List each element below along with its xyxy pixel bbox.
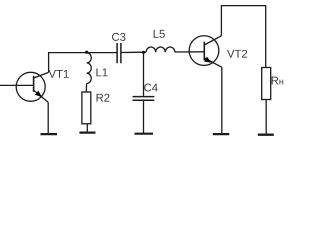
ground under C4 <box>135 133 154 135</box>
transistor VT2 emitter arrow <box>204 57 212 63</box>
label Rn <box>272 77 284 85</box>
capacitor C3 left plate <box>116 43 118 63</box>
wire VT2 emitter riser <box>221 67 223 133</box>
wire C3 to L5 with C4 tap <box>121 51 146 53</box>
wire L1 to R2 <box>85 83 87 92</box>
wire VT2 collector riser and top wire to Rn <box>221 6 265 68</box>
label C3 <box>112 33 125 41</box>
transistor VT2 collector diagonal <box>204 36 221 45</box>
label L5 <box>154 30 165 38</box>
ground under R2 <box>79 132 95 134</box>
wire base of VT1 from left edge <box>0 84 34 86</box>
capacitor C4 top plate <box>133 96 155 98</box>
resistor Rn body <box>262 68 271 100</box>
label VT1 <box>49 70 69 78</box>
transistor VT1 collector diagonal <box>34 72 49 78</box>
label VT2 <box>227 50 247 58</box>
node junction dot C4 tap <box>142 51 145 54</box>
transistor VT2 base bar <box>203 42 205 61</box>
wire VT1 emitter riser <box>47 102 49 133</box>
transistor VT1 emitter arrow <box>35 91 42 98</box>
transistor Q1 VT1 circle <box>16 72 45 101</box>
capacitor C3 right plate <box>120 43 122 63</box>
wire Rn to ground <box>265 100 267 135</box>
capacitor C4 bottom plate <box>133 99 155 101</box>
transistor VT1 emitter diagonal <box>34 90 49 102</box>
wire C4 upper lead <box>143 52 145 96</box>
node junction dot at L1 top <box>85 51 88 54</box>
transistor Q2 VT2 circle <box>189 36 219 66</box>
inductor L1 coil <box>87 53 92 84</box>
ground under VT1 <box>41 133 58 135</box>
resistor R2 body <box>82 92 91 124</box>
ground under VT2 <box>213 133 230 135</box>
label R2 <box>97 94 110 102</box>
label L1 <box>96 69 107 77</box>
wire R2 to ground <box>86 124 88 132</box>
transistor VT1 base bar <box>33 76 35 92</box>
label C4 <box>144 84 158 92</box>
transistor VT2 emitter diagonal <box>204 58 222 67</box>
ground under Rn <box>258 134 274 136</box>
wire VT1 collector riser and top-left horizontal run <box>49 53 118 73</box>
wire C4 lower lead <box>143 101 145 133</box>
wire L5 to VT2 base <box>175 51 204 53</box>
inductor L5 coil <box>146 47 175 52</box>
